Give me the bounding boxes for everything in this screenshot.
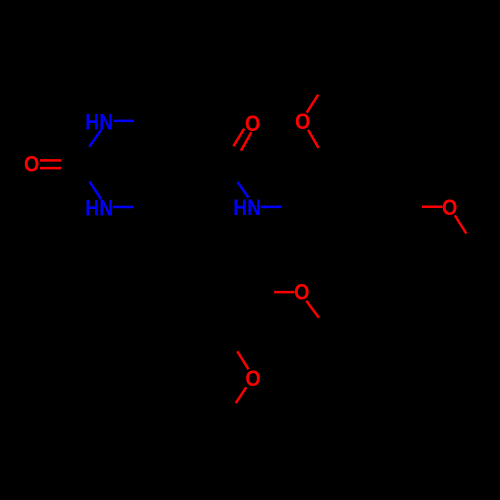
svg-text:HN: HN <box>85 196 113 221</box>
svg-text:O: O <box>295 109 310 134</box>
svg-text:O: O <box>294 280 309 305</box>
svg-text:O: O <box>24 152 39 177</box>
svg-text:HN: HN <box>233 195 261 220</box>
svg-text:O: O <box>245 111 260 136</box>
svg-text:HN: HN <box>85 110 113 135</box>
svg-text:O: O <box>442 195 457 220</box>
svg-text:O: O <box>245 366 260 391</box>
